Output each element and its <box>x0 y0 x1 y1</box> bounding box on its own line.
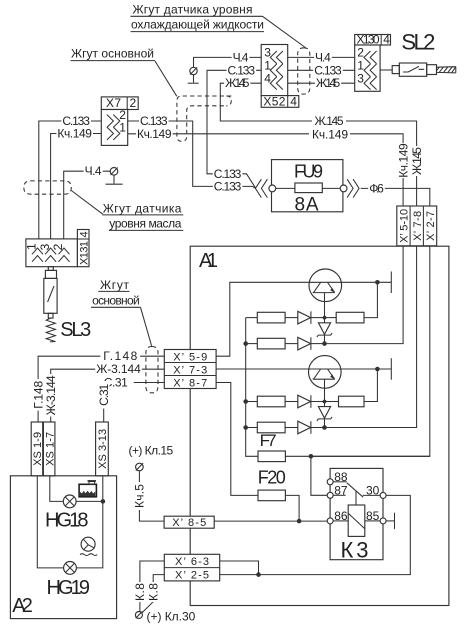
terminal (+) Кл.15 <box>129 444 174 471</box>
svg-text:F7: F7 <box>260 431 277 450</box>
collector wire of VT2 with case bar <box>341 358 391 380</box>
label Кч.149 (on long wire) <box>309 127 350 141</box>
connector X130 <box>355 33 391 92</box>
collector wire of VT1 with case bar <box>342 272 392 294</box>
rotated label Ж.145 (vertical drop) <box>410 146 424 176</box>
wire from Х'7-8 into A1 to lower diode row of VT2 <box>325 246 417 428</box>
wire Кч.149 (X7 right, long to A1) <box>128 127 403 206</box>
bolted chassis terminal (X52 Ч.4) <box>188 67 199 83</box>
lamp HG19 <box>64 562 77 575</box>
coolant level sensor SL2 <box>380 63 456 76</box>
svg-text:С.133: С.133 <box>214 180 242 194</box>
svg-text:F20: F20 <box>258 468 286 488</box>
label С.133 (lower row before FU9) <box>213 180 243 194</box>
rotated wire label К.8 (first) <box>133 582 147 602</box>
junction after F7 <box>309 454 314 459</box>
unit A1 (fuse-relay electronic block) <box>190 246 449 605</box>
svg-text:Кч.149: Кч.149 <box>137 127 172 141</box>
harness sleeve (coolant sensor, dashed stadium) <box>298 48 310 94</box>
svg-text:К.8: К.8 <box>146 583 160 601</box>
svg-text:Ж-3.144: Ж-3.144 <box>96 362 141 376</box>
zener diode (VT2 group) <box>317 400 332 428</box>
junction on VT2 collector <box>375 367 380 372</box>
connector Х'5-10 / Х'7-8 / Х'2-7 (top of A1) <box>397 206 437 246</box>
svg-text:Кч.5: Кч.5 <box>133 484 147 508</box>
svg-text:XS 3-13: XS 3-13 <box>97 429 109 469</box>
wire Ч.4 (X52 left) to chassis <box>194 50 262 67</box>
svg-text:Х’ 2-7: Х’ 2-7 <box>425 211 437 241</box>
transistor VT1 <box>309 269 342 318</box>
svg-text:Х’ 7-8: Х’ 7-8 <box>412 211 424 241</box>
svg-text:Жгут датчика: Жгут датчика <box>103 201 182 215</box>
splice chevrons into FU9 <box>255 179 267 197</box>
svg-text:Ч.4: Ч.4 <box>85 164 102 178</box>
svg-text:Жгут датчика уровня: Жгут датчика уровня <box>133 2 253 16</box>
harness sleeve (main, L-shaped, dashed) <box>177 96 231 141</box>
wire С.133 (X52 left, down to FU9) <box>207 63 261 188</box>
wire collector junction down to resistor row3 <box>364 369 377 402</box>
wire XS1-9 to lamp HG19 <box>37 476 64 568</box>
wire XS3-13 down to lamp HG18 right / HG19 <box>76 476 102 568</box>
svg-text:Ж-3.144: Ж-3.144 <box>44 375 58 415</box>
svg-text:X131: X131 <box>79 241 91 265</box>
connector Х'8-5 (left of A1) <box>139 471 327 529</box>
lamp HG18 <box>63 495 76 508</box>
label: Жгут датчика уровня охлаждающей жидкости <box>131 2 265 31</box>
svg-text:Х’ 8-7: Х’ 8-7 <box>173 377 207 389</box>
svg-text:HG18: HG18 <box>45 510 89 532</box>
connector XS1-9 <box>31 422 44 476</box>
leader line to main harness <box>155 61 177 96</box>
wire lamp HG18 right to junction <box>76 500 103 502</box>
svg-text:С.133: С.133 <box>314 63 342 77</box>
junction on VT1 collector <box>375 280 380 285</box>
label Ж.145 (between connectors) <box>315 76 341 90</box>
bolted chassis terminal (Ч.4) <box>106 168 123 185</box>
label Ж.145 (on long wire) <box>312 114 346 128</box>
svg-text:2: 2 <box>357 46 364 60</box>
svg-text:С.31: С.31 <box>97 383 111 405</box>
svg-text:XS 1-7: XS 1-7 <box>44 432 56 466</box>
svg-text:3: 3 <box>357 71 364 85</box>
svg-text:Ж.145: Ж.145 <box>316 76 341 90</box>
harness sleeve (dashed stadium near Х'5-9) <box>146 347 158 393</box>
coolant tank icon <box>79 481 96 497</box>
svg-text:охлаждающей жидкости: охлаждающей жидкости <box>131 18 264 32</box>
harness sleeve (oil sensor harness, dashed stadium) <box>24 181 72 194</box>
transistor VT2 <box>309 356 342 402</box>
leader line to oil harness label <box>71 191 103 215</box>
svg-text:1: 1 <box>119 121 126 135</box>
svg-text:Ф.6: Ф.6 <box>369 181 384 195</box>
svg-text:Х’ 5-10: Х’ 5-10 <box>399 209 411 243</box>
svg-text:Кч.149: Кч.149 <box>312 127 348 141</box>
connector X7 <box>101 96 138 145</box>
diode (row3) <box>298 395 325 408</box>
rotated label Кч.149 (vertical drop) <box>396 143 410 178</box>
resistor (row1 left) <box>246 312 298 323</box>
wire from Х'5-10 into A1 to lower diode row of VT1 <box>325 246 404 344</box>
wire from Х'2-7 into A1 to fuse F7 node <box>311 246 430 456</box>
svg-text:Х’ 2-5: Х’ 2-5 <box>175 570 209 582</box>
leader line to harness near A1 <box>141 307 152 346</box>
svg-text:Ж.145: Ж.145 <box>410 147 424 175</box>
fuse F7 <box>258 431 430 462</box>
relay K3 <box>327 468 386 562</box>
svg-text:2: 2 <box>130 96 137 110</box>
svg-text:4: 4 <box>383 33 390 47</box>
svg-text:Кч.149: Кч.149 <box>396 143 410 178</box>
connector XS1-7 <box>43 422 56 476</box>
relay coil K3 <box>348 505 365 536</box>
wire F7 node to relay pin 87 <box>311 456 327 495</box>
resistor (row4) <box>243 422 297 433</box>
svg-text:Х’ 5-9: Х’ 5-9 <box>173 351 207 363</box>
wire С.133 (X7 right, to FU9 splice) <box>128 114 256 188</box>
coolant temperature icon <box>80 537 97 555</box>
label: Жгут датчика уровня масла <box>102 201 183 230</box>
wire Ч.4 with chassis terminal <box>64 164 110 239</box>
svg-text:Ч.4: Ч.4 <box>315 50 331 64</box>
wire Ж.145 (X52 left, down then long right to A1) <box>220 76 416 206</box>
wire С.133 (X7 left) <box>39 114 102 239</box>
svg-text:(+) Кл.15: (+) Кл.15 <box>129 444 174 458</box>
svg-text:Х’ 6-3: Х’ 6-3 <box>175 556 209 568</box>
left bus inside A1 <box>246 318 258 457</box>
wire pin 30 down to Х'2-5 row <box>220 495 411 574</box>
connector Х'6-3 / Х'2-5 <box>140 554 259 613</box>
svg-text:Жгут основной: Жгут основной <box>71 47 154 61</box>
unit A2 (instrument cluster) <box>10 476 116 619</box>
svg-text:Кч.149: Кч.149 <box>57 127 92 141</box>
svg-text:SL2: SL2 <box>401 30 435 55</box>
wire Ж-3.144 (Х'7-3 to XS1-7) <box>44 362 164 422</box>
oil level sensor SL3 <box>44 267 57 342</box>
junction in A2 <box>101 499 106 504</box>
svg-text:Х’ 7-3: Х’ 7-3 <box>173 364 207 376</box>
contact blade 87-30 <box>347 483 363 497</box>
svg-text:SL3: SL3 <box>60 319 91 341</box>
svg-text:Жгут: Жгут <box>100 278 130 292</box>
terminal (+) Кл.30 <box>135 609 195 623</box>
diode (row2) <box>298 337 327 350</box>
wire Г.148 (Х'5-9 to XS1-9) <box>31 349 164 422</box>
base wire from Х'7-3 to VT2 <box>216 368 308 370</box>
resistor (row2) <box>243 338 297 349</box>
resistor (row3 left) <box>243 396 297 407</box>
resistor (row3 right) <box>325 396 365 407</box>
wire collector junction down to resistor row1 <box>364 282 377 317</box>
junction Х'6-3 / pin30 wire <box>256 572 261 577</box>
svg-text:К.8: К.8 <box>133 583 147 601</box>
fuse F20 <box>258 468 299 522</box>
wire Х'8-7 down to fuse F20 <box>216 383 258 496</box>
svg-text:X52: X52 <box>263 95 285 109</box>
svg-text:X130: X130 <box>357 33 380 47</box>
fuse FU9 8A <box>269 160 347 216</box>
label: Жгут основной (top) <box>71 47 156 61</box>
label: Жгут основной (second) <box>91 278 141 308</box>
svg-text:основной: основной <box>92 294 140 308</box>
connector Х'5-9 / Х'7-3 / Х'8-7 (left of A1) <box>164 350 216 390</box>
label С.133 (between connectors) <box>313 63 343 77</box>
svg-text:(+) Кл.30: (+) Кл.30 <box>147 609 196 623</box>
case bar for pin 85 <box>386 513 394 529</box>
connector X52 <box>261 45 299 109</box>
wire Ф.6 to A1 <box>361 181 430 206</box>
svg-text:Ж.145: Ж.145 <box>315 114 344 128</box>
wire Кч.149 (X7 left) <box>51 127 102 239</box>
svg-text:FU9: FU9 <box>294 162 323 182</box>
svg-text:уровня масла: уровня масла <box>109 217 181 231</box>
svg-text:HG19: HG19 <box>47 577 91 599</box>
label С.133 (upper row before FU9) <box>213 167 243 181</box>
svg-text:XS 1-9: XS 1-9 <box>32 432 44 466</box>
wires X52 to X130 <box>288 56 355 58</box>
svg-text:А1: А1 <box>199 250 218 272</box>
svg-text:Х’ 8-5: Х’ 8-5 <box>172 517 206 529</box>
zener diode (VT1 group) <box>317 316 332 344</box>
diode (row1) <box>298 311 325 324</box>
svg-text:4: 4 <box>79 231 91 237</box>
svg-text:А2: А2 <box>12 595 33 617</box>
svg-text:4: 4 <box>290 95 297 109</box>
output chevrons of FU9 <box>347 179 359 197</box>
junction F20 to Кл.15 feed wire <box>297 519 302 524</box>
svg-text:Ж.145: Ж.145 <box>225 76 250 90</box>
svg-text:С.133: С.133 <box>228 63 256 77</box>
base riser wire from Х'5-9 to VT1 <box>216 282 309 356</box>
svg-text:8А: 8А <box>295 195 319 216</box>
leader line to coolant harness <box>263 16 306 47</box>
svg-text:1: 1 <box>357 59 364 73</box>
diode (row4) <box>298 421 327 434</box>
svg-text:Ч.4: Ч.4 <box>233 50 249 64</box>
rotated wire label Кч.5 <box>133 482 147 510</box>
rotated wire label К.8 (second) <box>146 582 160 602</box>
resistor (row1 right) <box>325 312 365 323</box>
connector XS3-13 <box>96 422 110 476</box>
connector X131 <box>25 230 91 267</box>
label Ч.4 (between connectors) <box>314 50 332 64</box>
wire С.31 (Х'8-7 to XS3-13) <box>97 376 164 423</box>
wire XS1-7 to lamp HG18 <box>50 476 64 502</box>
